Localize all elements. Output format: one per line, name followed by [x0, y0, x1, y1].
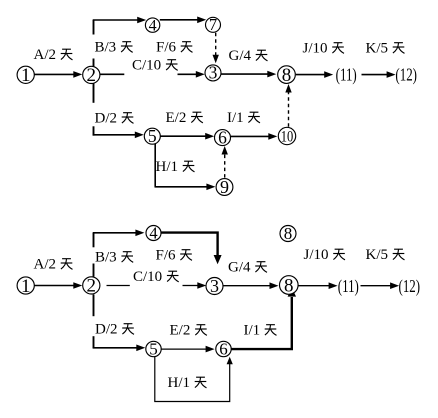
- svg-text:8: 8: [282, 65, 292, 86]
- svg-text:1: 1: [21, 276, 31, 297]
- node 1 (top): [17, 65, 34, 86]
- wire D riser lower segment (top): [93, 126, 95, 135]
- wire C left segment from node 2 (bottom): [107, 285, 130, 287]
- node 1 (bottom): [17, 276, 34, 297]
- wire C right segment into node 3 (top): [178, 71, 205, 78]
- label I/1 days (top): [227, 110, 260, 126]
- node 11 (bottom): [338, 277, 359, 296]
- svg-text:G/4: G/4: [229, 48, 252, 64]
- label K/5 days (bottom): [366, 247, 405, 263]
- svg-text:E/2: E/2: [166, 110, 187, 126]
- svg-text:I/1: I/1: [227, 110, 244, 126]
- node 8 floating label (bottom): [280, 224, 296, 243]
- wire E: node 5 to node 6 (bottom): [162, 346, 215, 353]
- svg-text:1: 1: [21, 65, 31, 86]
- label E/2 days (top): [166, 110, 203, 126]
- dummy arrow node 7 to node 3 (top): [213, 33, 219, 64]
- wire G: node 3 to node 8 (top): [221, 71, 277, 78]
- svg-text:D/2: D/2: [95, 322, 118, 338]
- label F/6 days (bottom): [156, 248, 193, 264]
- wire D horizontal into node 5 (top): [93, 132, 144, 139]
- wire F: node 4 to node 7 (top): [160, 17, 206, 24]
- svg-text:G/4: G/4: [228, 260, 251, 276]
- label B/3 days (bottom): [95, 250, 133, 266]
- label G/4 days (top): [229, 48, 268, 64]
- node 11 (top): [336, 66, 357, 85]
- svg-text:7: 7: [209, 15, 217, 34]
- svg-text:6: 6: [218, 127, 227, 147]
- svg-text:H/1: H/1: [168, 375, 191, 391]
- svg-text:I/1: I/1: [244, 323, 261, 339]
- svg-text:8: 8: [284, 224, 293, 243]
- wire B riser upper segment (bottom): [93, 233, 95, 247]
- node 12 (bottom): [399, 277, 421, 296]
- svg-text:F/6: F/6: [156, 248, 177, 264]
- node 3 (bottom): [206, 276, 223, 296]
- svg-text:(12): (12): [399, 277, 421, 296]
- wire E: node 5 to node 6 (top): [161, 133, 215, 140]
- node 12 (top): [395, 66, 417, 85]
- svg-text:C/10: C/10: [133, 269, 162, 285]
- node 7 (top): [206, 15, 221, 34]
- label K/5 days (top): [366, 41, 405, 57]
- wire J: node 8 to node 11 (bottom): [299, 282, 338, 289]
- wire D riser lower segment (bottom): [93, 336, 95, 348]
- svg-text:4: 4: [149, 17, 157, 34]
- node 3 (top): [205, 63, 221, 83]
- label C/10 days (top): [132, 58, 178, 74]
- wire H horizontal into node 9 (top): [155, 184, 216, 191]
- wire K: node 11 to node 12 (top): [362, 71, 396, 78]
- wire B riser lower segment above node 2 (bottom): [93, 264, 95, 277]
- svg-text:A/2: A/2: [34, 47, 57, 63]
- svg-text:2: 2: [87, 276, 97, 297]
- wire D riser upper segment below node 2 (top): [93, 83, 95, 103]
- wire H riser from node 5 down (top): [154, 144, 156, 187]
- node 8 main (bottom): [280, 275, 299, 296]
- label G/4 days (bottom): [228, 260, 267, 276]
- wire A: node 1 to node 2 (top): [33, 71, 83, 78]
- svg-text:B/3: B/3: [95, 250, 117, 266]
- node 8 (top): [278, 65, 296, 86]
- svg-text:J/10: J/10: [303, 41, 328, 57]
- svg-text:J/10: J/10: [304, 247, 329, 263]
- node 10 (top): [278, 127, 295, 145]
- node 5 (top): [144, 126, 160, 146]
- node 4 (bottom): [146, 223, 161, 242]
- wire J: node 8 to node 11 (top): [296, 71, 333, 78]
- svg-text:3: 3: [209, 63, 218, 83]
- svg-text:(11): (11): [338, 277, 359, 296]
- wire D horizontal into node 5 (bottom): [93, 345, 146, 352]
- wire B horizontal into node 4 (bottom): [93, 230, 145, 237]
- label J/10 days (top): [303, 41, 345, 57]
- svg-text:4: 4: [149, 223, 157, 242]
- node 5 (bottom): [146, 340, 161, 359]
- label B/3 days (top): [95, 40, 133, 56]
- node 2 (top): [83, 65, 100, 86]
- label E/2 days (bottom): [170, 323, 207, 339]
- node 9 (top): [216, 177, 233, 197]
- svg-text:(12): (12): [395, 66, 417, 85]
- label A/2 days (bottom): [34, 257, 73, 273]
- svg-text:10: 10: [281, 128, 293, 146]
- label H/1 days (bottom): [168, 375, 207, 391]
- dummy arrow node 10 to node 8 (top): [285, 84, 291, 127]
- svg-text:K/5: K/5: [366, 247, 389, 263]
- wire F bold elbow from node 4 down toward node 3 (bottom): [161, 233, 221, 265]
- node 6 (top): [215, 127, 231, 147]
- svg-text:B/3: B/3: [95, 40, 117, 56]
- wire C right segment into node 3 (bottom): [183, 282, 207, 289]
- wire G: node 3 to node 8 (bottom): [224, 282, 279, 289]
- svg-text:(11): (11): [336, 66, 357, 85]
- svg-text:D/2: D/2: [95, 111, 118, 127]
- label A/2 days (top): [34, 47, 73, 63]
- svg-text:5: 5: [149, 340, 158, 359]
- wire I bold elbow from node 6 right and up into node 8 (bottom): [231, 287, 296, 349]
- label D/2 days (bottom): [95, 322, 134, 338]
- svg-text:H/1: H/1: [156, 159, 179, 175]
- svg-text:9: 9: [220, 177, 229, 197]
- svg-text:8: 8: [284, 275, 294, 296]
- wire I: node 6 to node 10 (top): [231, 133, 277, 140]
- wire A: node 1 to node 2 (bottom): [33, 282, 83, 289]
- svg-text:2: 2: [87, 65, 97, 86]
- label C/10 days (bottom): [133, 269, 179, 285]
- wire D riser upper segment below node 2 (bottom): [93, 294, 95, 316]
- svg-text:E/2: E/2: [170, 323, 191, 339]
- wire H thin elbow from node 5 down, right, up into node 6 (bottom): [155, 357, 233, 402]
- wire K: node 11 to node 12 (bottom): [361, 282, 400, 289]
- svg-text:A/2: A/2: [34, 257, 57, 273]
- node 4 (top): [145, 17, 159, 34]
- node 6 (bottom): [216, 340, 231, 359]
- svg-text:F/6: F/6: [156, 40, 177, 56]
- wire B riser upper segment from node 2 up (top): [93, 20, 95, 35]
- wire B riser lower segment above node 2 (top): [93, 59, 95, 67]
- svg-text:K/5: K/5: [366, 41, 389, 57]
- svg-text:3: 3: [210, 276, 219, 296]
- label J/10 days (bottom): [304, 247, 346, 263]
- label D/2 days (top): [95, 111, 134, 127]
- node 2 (bottom): [83, 276, 100, 297]
- dummy arrow node 9 to node 6 (top): [222, 146, 228, 178]
- label H/1 days (top): [156, 159, 195, 175]
- wire B horizontal into node 4 (top): [93, 17, 147, 24]
- label I/1 days (bottom): [244, 323, 277, 339]
- svg-text:C/10: C/10: [132, 58, 161, 74]
- label F/6 days (top): [156, 40, 193, 56]
- svg-text:6: 6: [219, 340, 228, 359]
- wire C left segment from node 2 (top): [100, 73, 125, 75]
- svg-text:5: 5: [148, 126, 157, 146]
